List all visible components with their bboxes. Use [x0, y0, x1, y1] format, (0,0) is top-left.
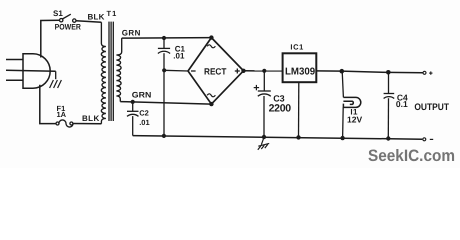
voltage regulator IC1 LM309 box — [283, 53, 317, 82]
svg-text:1A: 1A — [57, 110, 67, 119]
svg-text:.01: .01 — [139, 118, 149, 127]
svg-text:OUTPUT: OUTPUT — [414, 102, 449, 113]
minus sign (output) — [430, 138, 433, 140]
output terminal + (open circle) — [423, 71, 426, 74]
svg-text:12V: 12V — [347, 114, 362, 124]
svg-text:GRN: GRN — [122, 29, 141, 38]
plus sign (rectifier) — [235, 69, 240, 74]
svg-text:SeekIC.com: SeekIC.com — [368, 147, 455, 165]
fuse F1 1A — [56, 120, 73, 127]
svg-text:T1: T1 — [107, 9, 118, 18]
wire: C1 bottom to minus-node and down to 0V rail (crosses GRN rail) — [163, 53, 165, 136]
chassis ground symbol (0V rail) — [258, 138, 269, 150]
wire: secondary bottom rail (GRN) to rectifier bottom vertex — [120, 102, 211, 105]
svg-text:2200: 2200 — [269, 103, 292, 115]
ground stub from plug — [55, 71, 57, 79]
wire: IC1 output to + output terminal — [316, 71, 423, 73]
svg-text:0.1: 0.1 — [396, 99, 408, 109]
capacitor C4 — [384, 94, 395, 99]
node: IC1 ground on 0V rail — [296, 135, 300, 139]
bridge rectifier diamond — [188, 38, 244, 105]
node: rectifier minus junction — [162, 68, 166, 72]
plus sign (C3 polarity) — [254, 85, 259, 90]
node: C4 junction on output wire — [386, 70, 391, 75]
node: C4 on 0V rail — [386, 136, 390, 140]
plug prong (top) — [6, 59, 23, 61]
capacitor C2 — [127, 111, 139, 116]
node: C3 junction — [262, 69, 266, 73]
capacitor C1 — [158, 48, 170, 53]
switch S1 (POWER) — [60, 14, 77, 22]
svg-text:BLK: BLK — [88, 13, 105, 22]
node: rectifier bottom vertex — [209, 102, 213, 106]
transformer T1 core — [109, 22, 113, 121]
pilot lamp I1 12V — [343, 97, 360, 107]
0V bottom rail — [133, 136, 423, 140]
capacitor C1 lead from top rail — [163, 38, 165, 48]
wire: minus-node stub to rectifier left vertex — [164, 69, 188, 72]
capacitor C3 (electrolytic) — [258, 91, 271, 96]
wire: C3 bottom to 0V rail — [263, 96, 265, 137]
chassis ground symbol (plug) — [50, 80, 62, 88]
wire: IC1 ground pin to 0V rail — [298, 82, 300, 137]
node: C2 junction on bottom GRN rail — [131, 100, 135, 104]
node: lamp junction on output wire — [340, 69, 345, 74]
wire: S1 to transformer T1 primary top — [76, 21, 101, 23]
AC symbol (bottom) — [207, 94, 215, 97]
lamp I1 top lead — [342, 71, 343, 97]
svg-text:LM309: LM309 — [285, 67, 316, 78]
svg-text:C2: C2 — [139, 109, 149, 118]
svg-text:BLK: BLK — [82, 114, 100, 123]
svg-text:RECT: RECT — [204, 66, 227, 76]
transformer T1 primary winding — [101, 22, 106, 123]
svg-text:GRN: GRN — [132, 91, 152, 100]
node: lamp on 0V rail — [340, 136, 344, 140]
capacitor C3 lead — [263, 71, 265, 91]
capacitor C2 lead — [132, 102, 134, 111]
wire: fuse to transformer primary bottom — [73, 123, 102, 125]
wire: C4 bottom to 0V rail — [387, 98, 389, 138]
svg-text:POWER: POWER — [55, 23, 81, 32]
plug prong (middle/ground) — [6, 70, 56, 71]
plus sign (output) — [429, 71, 432, 74]
svg-text:S1: S1 — [53, 9, 63, 18]
node: rectifier top vertex — [209, 35, 213, 39]
wire: switch feed from plug top lead corner to S1 — [41, 20, 60, 57]
node: C1/minus line on 0V rail — [162, 134, 166, 138]
minus sign (rectifier) — [191, 70, 196, 72]
node: C1 junction on top rail — [162, 36, 166, 40]
transformer T1 secondary winding — [116, 38, 121, 102]
AC symbol (top) — [207, 45, 215, 48]
plug prong (bottom) — [6, 79, 23, 81]
svg-text:IC1: IC1 — [290, 43, 303, 52]
capacitor C4 lead — [388, 72, 390, 93]
wire: plug bottom lead down to fuse wire — [40, 85, 56, 124]
svg-text:.01: .01 — [173, 52, 185, 61]
node: rectifier right vertex — [241, 69, 245, 73]
AC plug P1 body — [23, 54, 50, 88]
wire: C2 bottom to 0V rail corner — [132, 116, 134, 136]
wire: rectifier + output to IC1 input — [244, 70, 283, 72]
lamp I1 bottom lead — [342, 107, 345, 138]
wire: secondary top rail (GRN) to rectifier top vertex — [122, 37, 212, 40]
output terminal - (open circle) — [423, 138, 426, 141]
node: C3 on 0V rail — [262, 135, 266, 139]
